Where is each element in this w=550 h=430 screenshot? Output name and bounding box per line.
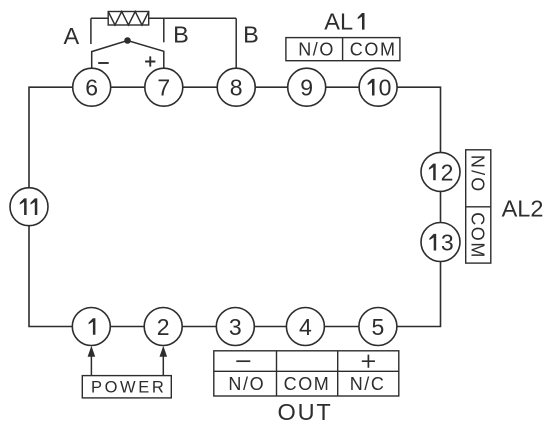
AL2 contact box: [466, 150, 491, 263]
terminal 1: [72, 308, 110, 346]
wire: B drop to terminal 8: [235, 18, 237, 68]
svg-text:N/O: N/O: [468, 155, 488, 194]
terminal 3: [216, 308, 254, 346]
svg-text:8: 8: [230, 75, 243, 101]
terminal 8: [217, 68, 255, 106]
terminal 5: [359, 308, 397, 346]
terminal 7: [145, 68, 183, 106]
label plus at terminal 7: [145, 56, 155, 66]
terminal 6: [73, 68, 111, 106]
terminal 2: [144, 308, 182, 346]
svg-text:2: 2: [157, 314, 170, 340]
svg-text:4: 4: [299, 314, 312, 340]
svg-text:7: 7: [157, 75, 170, 101]
wire: sensor lead A horizontal into resistor: [91, 17, 108, 19]
wire: power arrow to terminal 2: [160, 346, 168, 376]
wire: sensor lead A vertical stub: [90, 18, 92, 44]
svg-text:0: 0: [379, 75, 392, 101]
svg-text:N/O: N/O: [298, 40, 335, 60]
svg-text:3: 3: [441, 230, 454, 256]
label minus at terminal 6: [98, 62, 109, 64]
svg-text:AL: AL: [324, 9, 353, 35]
svg-text:A: A: [63, 23, 79, 49]
terminal 9: [288, 68, 326, 106]
svg-text:N/O: N/O: [228, 374, 265, 394]
terminal 11: [10, 188, 48, 226]
terminal 12: [421, 152, 460, 191]
wire: resistor right to terminal-8 drop: [149, 17, 237, 19]
svg-text:COM: COM: [350, 40, 397, 60]
POWER box: [82, 376, 171, 398]
svg-text:AL2: AL2: [502, 195, 544, 221]
wire: main terminal loop: [29, 87, 441, 326]
svg-text:2: 2: [441, 159, 454, 185]
wire: B stub above terminal 7: [163, 18, 165, 42]
wire: sensor V-link from terminal 6 to junction to terminal 7: [92, 41, 164, 69]
terminal 13: [421, 223, 460, 262]
terminal 10: [359, 68, 397, 106]
svg-text:COM: COM: [468, 212, 488, 259]
svg-text:3: 3: [229, 314, 242, 340]
svg-text:B: B: [173, 22, 189, 48]
terminal 4: [286, 308, 324, 346]
wire: power arrow to terminal 1: [88, 346, 96, 376]
svg-text:POWER: POWER: [91, 379, 166, 397]
svg-text:N/C: N/C: [350, 374, 386, 394]
svg-text:OUT: OUT: [277, 399, 332, 425]
AL1 contact box: [286, 38, 400, 61]
node: sensor junction dot: [124, 37, 131, 44]
OUT contact table: [214, 351, 399, 396]
resistor RTD sensor element: [108, 12, 149, 26]
svg-text:6: 6: [85, 75, 98, 101]
svg-text:5: 5: [372, 314, 385, 340]
svg-text:9: 9: [300, 75, 313, 101]
svg-text:B: B: [243, 22, 259, 48]
svg-text:COM: COM: [284, 374, 331, 394]
